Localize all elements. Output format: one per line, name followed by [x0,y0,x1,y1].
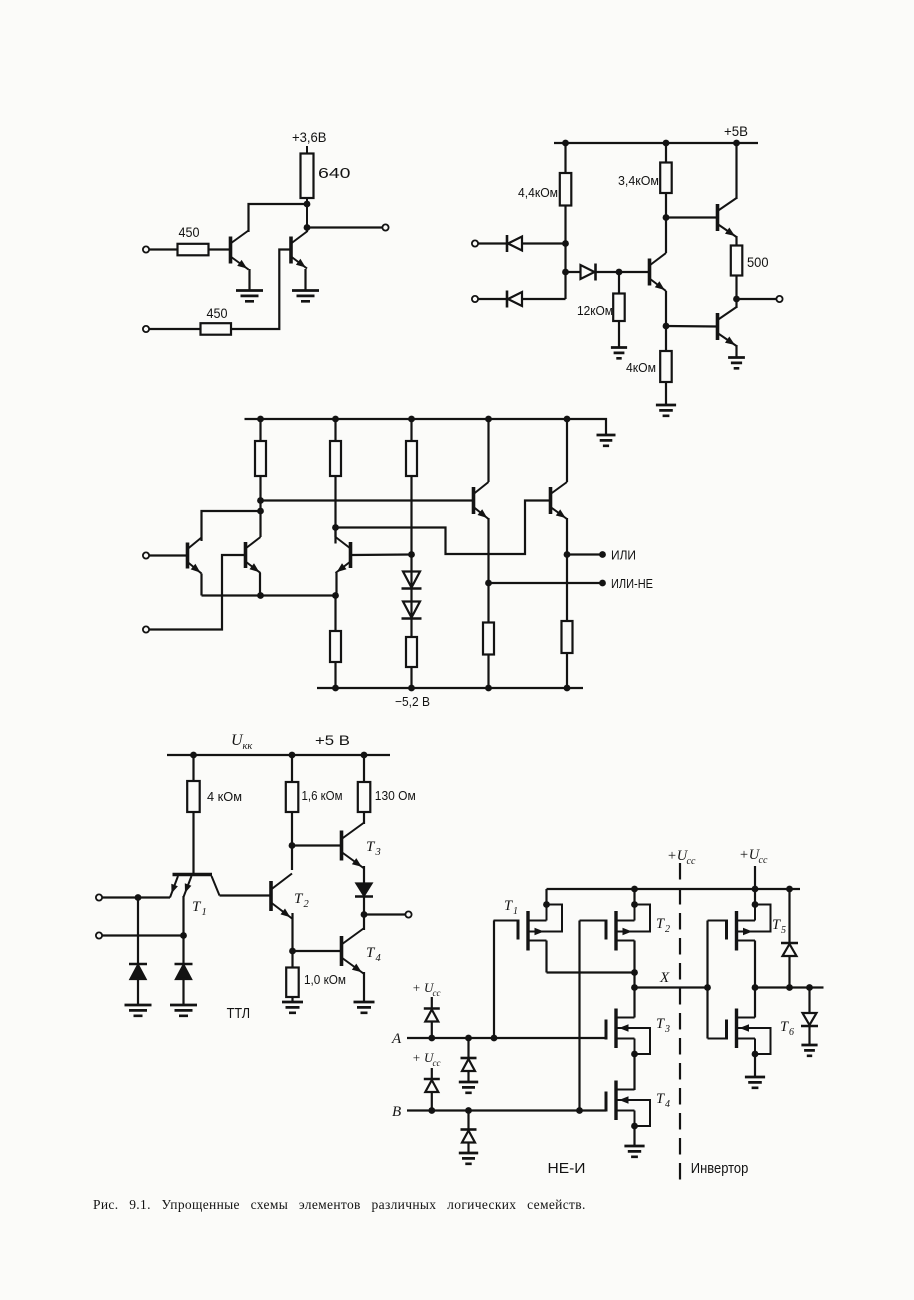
wire common emitter line [202,594,336,596]
node X left [631,984,638,991]
ground 4k [656,405,676,416]
wire T1 gate riser [493,921,495,1039]
wire Q3 base [666,325,718,328]
transistor EF1 (OR-NOT emitter follower) [472,487,476,514]
wire D5 branch [788,889,790,988]
transistor T3 [340,831,344,861]
svg-text:3: 3 [664,1024,670,1035]
node output DTL [733,296,740,303]
wire EF1 emitter column [487,518,489,688]
wire T4 emitter down [363,972,365,1002]
node rail D5 [786,886,793,893]
T2 channel [614,911,617,951]
svg-text:1,0 кОм: 1,0 кОм [304,972,346,987]
T4 gate [605,1110,607,1112]
input terminal 1 [143,246,149,252]
ground T1 emitter [236,291,263,302]
node T2 collector / T3 base [289,842,296,849]
svg-text:4: 4 [665,1099,670,1110]
svg-text:T: T [772,917,781,933]
svg-text:cc: cc [433,1058,441,1068]
svg-text:640: 640 [318,166,351,182]
node rail R2 [332,416,339,423]
wire T6 source to ground [754,1054,756,1077]
transistor Ta (input 1) [186,543,190,569]
node drain join [631,969,638,976]
resistor 1,6 кОм [286,782,299,812]
ground 1,0 кОм [282,1002,303,1013]
wire CMOS rail [547,888,801,890]
resistor 4 кОм [187,781,200,812]
node ИЛИ-НЕ terminal [599,580,606,587]
wire 4k branch [665,326,667,405]
node B Ucc clamp [428,1107,435,1114]
wire 1,6k column / T2 collector [291,755,293,870]
svg-text:3: 3 [375,847,381,858]
ground T6 [745,1077,765,1088]
wire Ucc diode A [431,997,433,1038]
resistor 640 [301,154,314,199]
wire Tc collector to EF2 base zigzag [336,501,550,555]
wire Ta collector link [202,511,261,541]
svg-text:450: 450 [207,306,228,321]
wire T2 emitter down [304,269,306,291]
svg-text:cc: cc [433,988,441,998]
wire T2 drain drop [633,941,635,988]
svg-text:T: T [780,1019,789,1035]
node T2 emitter / T4 base [289,948,296,955]
wire D6 branch [808,988,810,1046]
node common emitter Re [332,592,339,599]
diode D5 to rail [783,944,797,956]
ground 12k [611,348,627,359]
wire T6 drain riser [754,988,756,1018]
wire gnd clamp A [467,1038,469,1082]
node clamp 2 [180,932,187,939]
wire T3 emitter to diode [363,866,365,884]
node rail EF1 [485,416,492,423]
node rail left [562,140,569,147]
wire input 1 to T1 base [149,248,231,250]
output terminal DTL [776,296,782,302]
transistor Q1 (DTL driver) [648,259,652,286]
ground clamp 1 [125,1005,152,1016]
wire ECL bottom rail [317,687,583,689]
wire ИЛИ output line [567,553,603,555]
wire T2 emitter column [291,913,293,1002]
svg-text:НЕ-И: НЕ-И [548,1161,586,1177]
wire Re column [334,596,336,689]
wire gnd clamp B [467,1111,469,1154]
wire Q3 emitter down [735,345,737,358]
transistor T1 base diagonal [212,876,220,896]
svg-text:4,4кОм: 4,4кОм [518,185,558,200]
T4 channel [614,1081,617,1121]
resistor 4кОм [660,351,672,382]
wire Q2 collector riser [735,143,737,199]
wire Q1 collector riser [665,218,667,254]
wire 3,4k column [665,143,667,218]
wire inverter output line [755,986,824,988]
resistor 130 Ом [358,782,371,812]
svg-text:−5,2 В: −5,2 В [395,694,430,709]
node rail right [733,140,740,147]
node Q1 base / 12k [616,269,623,276]
node TTL output [361,911,368,918]
diode clamp B [462,1131,475,1143]
diode clamp A [462,1059,475,1071]
wire Ta emitter down [200,574,202,596]
node rail EF2 [564,416,571,423]
wire Tc base to bias [352,553,412,556]
svg-text:ИЛИ: ИЛИ [611,549,636,563]
ground clamp A [459,1082,478,1093]
input terminal 2 [143,326,149,332]
T5 gate [708,920,727,922]
input terminal A [472,240,478,246]
wire bias column [410,555,412,689]
T3 gate [605,1038,607,1040]
T1 gate [494,920,519,922]
wire 12k branch [618,272,620,348]
wire EF1 base line [261,499,473,501]
wire T5 drain drop [754,941,756,988]
input terminal TTL 2 [96,932,102,938]
wire R3 column [410,419,412,555]
node rail middle [663,140,670,147]
resistor 1,0 кОм [286,968,299,998]
transistor EF2 (OR emitter follower) [549,487,553,514]
resistor 450 (upper) [178,244,209,256]
T1 channel [526,911,529,951]
wire inverter input column [706,921,708,1039]
wire AND node to Q1 base [566,271,650,273]
node rail 130 [361,752,368,759]
wire T2 base from input 2 [149,250,290,330]
wire EF1 collector riser [487,419,489,482]
diode D1 input [508,237,522,251]
transistor Q3 (DTL lower output) [716,313,720,340]
wire TTL rail [167,754,390,756]
resistor bias lower [406,637,417,667]
node diode AND junction upper [562,240,569,247]
diode output shift [357,884,372,896]
T6 drain-source [737,1017,756,1019]
node rail 4k [190,752,197,759]
wire diode to output node [363,897,365,931]
wire R2 column [334,419,336,537]
wire EF2 collector riser [566,419,568,482]
input terminal ECL 1 [143,552,149,558]
wire EF2 emitter column [566,518,568,688]
resistor 12кОм [613,294,625,322]
resistor 3,4кОм [660,163,672,194]
wire X line [635,986,708,988]
output terminal [382,224,388,230]
svg-text:кк: кк [243,741,253,752]
wire T1 base to T2 base [220,894,272,896]
svg-text:3,4кОм: 3,4кОм [618,173,659,188]
svg-text:T: T [656,916,665,932]
node Tb collector [257,508,264,515]
node collector junction [304,201,311,208]
svg-text:130 Ом: 130 Ом [375,788,416,803]
resistor Re emitter [330,631,341,662]
resistor R1 collector [255,441,266,476]
output terminal TTL [405,911,411,917]
transistor T1 multi-emitter bar [173,873,213,877]
node Tc collector line [332,524,339,531]
wire Tc emitter down [335,573,337,596]
transistor Q2 (DTL upper output) [716,204,720,231]
node B gnd clamp [465,1107,472,1114]
wire ИЛИ-НЕ output line [489,582,603,584]
svg-text:Рис. 9.1. Упрощенные схемы: Рис. 9.1. Упрощенные схемы элементов раз… [93,1197,586,1212]
wire input 1 to Ta base [149,554,188,556]
diode bias D2 [403,602,420,618]
node EF1 emitter [485,580,492,587]
node A gnd clamp [465,1035,472,1042]
svg-text:cc: cc [687,856,696,867]
node A T1 gate [491,1035,498,1042]
wire A line [407,1037,606,1039]
wire collector node to T1 collector [249,204,308,232]
diode D2 input [508,292,522,306]
wire Q2 emitter to 500 [735,236,737,299]
diode D3 series [581,265,595,279]
transistor T2 (RTL right) [289,237,293,264]
resistor 4,4кОм [560,173,572,206]
wire TTL output [364,913,406,915]
diode bias D1 [403,572,420,588]
wire Ucc diode B [431,1068,433,1111]
node Q1 emitter / Q3 base / 4k [663,323,670,330]
input terminal ECL 2 [143,626,149,632]
T6 channel [735,1009,738,1049]
T4 drain-source [616,1089,635,1091]
ground D6 [801,1045,817,1056]
ground clamp B [459,1153,478,1164]
svg-text:+5В: +5В [724,124,748,139]
node rail R3 [408,416,415,423]
T5 drain-source [737,920,756,922]
svg-text:X: X [659,970,670,986]
transistor T4 [340,936,344,966]
svg-text:T: T [504,898,513,914]
svg-text:4: 4 [376,953,382,964]
svg-text:6: 6 [789,1027,794,1038]
node bottom EF1 [485,685,492,692]
wire T1 source riser [545,889,547,905]
wire 130 column [363,755,365,824]
diode Ucc A [425,1010,438,1022]
wire Q1 emitter riser [665,291,667,326]
resistor 450 (lower) [201,323,232,335]
T1 drain-source [528,920,547,922]
T2 drain-source [616,920,635,922]
transistor T1 emitter 2 [184,876,192,897]
ground T2 emitter [292,291,319,302]
svg-text:T: T [656,1016,665,1032]
svg-text:1: 1 [513,906,518,917]
wire T5 source riser [754,889,756,905]
wire T3 base line [292,844,342,846]
wire output node to terminal [307,226,383,228]
wire drain join to T2 [547,971,635,973]
svg-text:1: 1 [202,907,207,918]
node output junction [304,224,311,231]
wire node to Q2 base [666,216,718,218]
wire clamp 1 branch [137,898,139,1006]
ground Q3 [728,358,745,369]
wire +5V rail [554,142,758,144]
T3 drain-source [616,1017,635,1019]
wire T2 source riser [633,889,635,905]
svg-text:+5 В: +5 В [315,733,350,748]
transistor Tb (input 2) [244,542,248,568]
T6 gate [708,1038,727,1040]
node common emitter Tb [257,592,264,599]
svg-text:4кОм: 4кОм [626,360,656,375]
wire T2 gate riser [578,921,580,1111]
node output D5 [786,984,793,991]
diode Ucc B [425,1080,438,1092]
wire Tb base from input 2 [149,555,244,630]
wire B line [407,1109,606,1111]
node diode AND junction lower [562,269,569,276]
wire T3 drain riser [633,988,635,1018]
node rail 1,6k [289,752,296,759]
svg-text:+3,6В: +3,6В [292,130,327,145]
node clamp 1 [135,894,142,901]
ground T4 CMOS [624,1146,644,1157]
svg-text:4 кОм: 4 кОм [207,789,242,804]
resistor 500 [731,246,743,276]
node A Ucc clamp [428,1035,435,1042]
svg-text:5: 5 [781,925,786,936]
wire R1 column [259,419,261,537]
diode clamp 1 [131,965,146,979]
node Ta collector line [257,497,264,504]
node rail T2 [631,886,638,893]
node EF2 emitter OR [564,551,571,558]
svg-text:Инвертор: Инвертор [691,1161,749,1177]
ground T4 [354,1002,375,1013]
wire T4 base [293,950,342,952]
wire Tb emitter down [259,573,261,596]
diode D6 to ground [803,1013,817,1025]
T3 channel [614,1009,617,1049]
wire T1 drain drop [545,941,547,973]
resistor EF1 pulldown [483,623,494,655]
wire Q3 collector riser [735,299,737,308]
input terminal B [472,296,478,302]
svg-text:T: T [656,1091,665,1107]
svg-text:500: 500 [747,255,769,270]
wire clamp 2 branch [182,936,184,1006]
node X right [704,984,711,991]
svg-text:2: 2 [304,899,310,910]
wire output DTL [737,298,778,300]
node B T2 gate [576,1107,583,1114]
ground clamp 2 [170,1005,197,1016]
transistor T2 phase splitter [269,881,273,911]
svg-text:A: A [391,1031,402,1047]
node output D6 [806,984,813,991]
wire 4,4k column [564,143,566,299]
node bias junction [408,551,415,558]
svg-text:B: B [392,1104,401,1120]
node Q1 collector / Q2 base [663,214,670,221]
node bottom bias [408,685,415,692]
wire ECL top rail [245,419,607,435]
node rail feed [752,886,759,893]
wire +3.6V to collector node [306,146,308,228]
svg-text:ТТЛ: ТТЛ [227,1006,251,1022]
node rail R1 [257,416,264,423]
svg-text:1,6 кОм: 1,6 кОм [302,788,343,803]
resistor EF2 pulldown [562,621,573,653]
svg-text:cc: cc [759,855,768,866]
wire T1 emitter 2 drop [182,896,184,936]
svg-text:2: 2 [665,924,670,935]
node bottom Re [332,685,339,692]
wire 4k column [192,755,194,873]
wire input 1 line [102,896,170,898]
T5 channel [735,911,738,951]
transistor Tc (reference, mirrored) [349,542,353,568]
node ИЛИ terminal [599,551,606,558]
wire T1 emitter down [248,269,250,291]
T2 gate [580,920,607,922]
wire input B to node [478,298,566,300]
wire +Ucc feed [754,866,756,889]
ground ECL rail [597,435,616,446]
divider dashed line [679,863,681,1181]
wire T4 source to ground [633,1126,635,1146]
wire input 2 line [102,934,184,936]
resistor R2 collector [330,441,341,476]
wire T2 collector to output node [306,228,308,233]
wire Tc collector riser [334,528,336,544]
node bottom EF2 [564,685,571,692]
transistor T1 (RTL left) [229,237,233,264]
svg-text:12кОм: 12кОм [577,303,613,318]
svg-text:450: 450 [179,225,200,240]
wire T3 to T4 [633,1054,635,1090]
diode clamp 2 [176,965,191,979]
node inverter output [752,984,759,991]
resistor R3 bias [406,441,417,476]
input terminal TTL 1 [96,894,102,900]
svg-text:ИЛИ-НЕ: ИЛИ-НЕ [611,577,653,591]
transistor T1 emitter 1 [170,876,178,898]
wire input A to node [478,242,566,244]
